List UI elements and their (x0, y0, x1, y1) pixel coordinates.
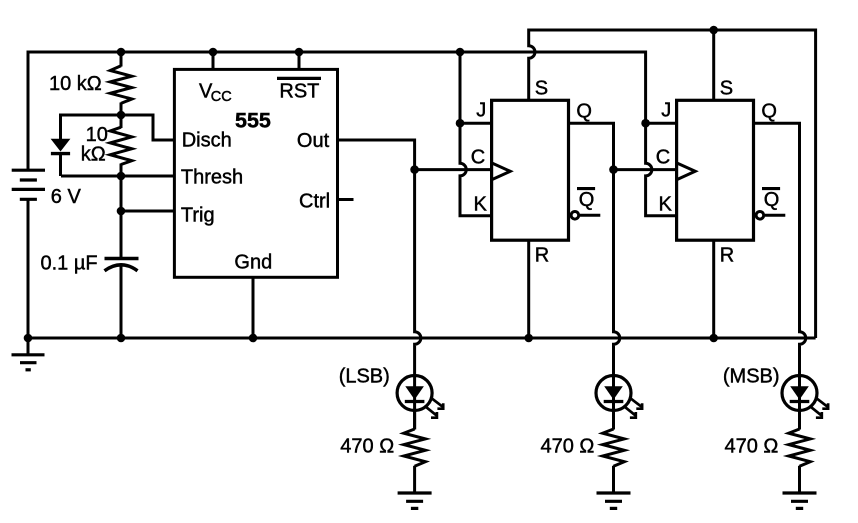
svg-text:Thresh: Thresh (181, 166, 243, 188)
svg-text:Disch: Disch (182, 130, 232, 152)
svg-text:Trig: Trig (181, 204, 215, 226)
svg-text:C: C (471, 146, 485, 168)
svg-text:Out: Out (297, 130, 330, 152)
svg-text:470 Ω: 470 Ω (541, 435, 595, 457)
svg-text:470 Ω: 470 Ω (340, 435, 394, 457)
svg-text:Q: Q (579, 189, 595, 211)
svg-text:S: S (720, 77, 733, 99)
svg-text:S: S (535, 77, 548, 99)
svg-text:K: K (659, 194, 673, 216)
svg-text:(LSB): (LSB) (339, 365, 390, 387)
svg-text:R: R (720, 244, 734, 266)
svg-text:10 kΩ: 10 kΩ (49, 73, 102, 95)
svg-text:CC: CC (211, 89, 232, 105)
svg-text:J: J (476, 100, 486, 122)
svg-text:K: K (474, 194, 488, 216)
svg-text:555: 555 (235, 108, 271, 132)
svg-text:kΩ: kΩ (81, 144, 106, 166)
svg-text:J: J (661, 100, 671, 122)
svg-text:Ctrl: Ctrl (299, 190, 330, 212)
svg-text:C: C (656, 146, 670, 168)
svg-text:RST: RST (279, 81, 319, 103)
svg-text:Gnd: Gnd (234, 251, 272, 273)
svg-text:Q: Q (764, 189, 780, 211)
svg-text:(MSB): (MSB) (723, 365, 780, 387)
svg-text:R: R (535, 244, 549, 266)
svg-text:0.1 µF: 0.1 µF (41, 253, 98, 275)
svg-text:6 V: 6 V (51, 186, 82, 208)
svg-text:Q: Q (576, 100, 592, 122)
svg-text:470 Ω: 470 Ω (725, 435, 779, 457)
svg-text:Q: Q (761, 100, 777, 122)
